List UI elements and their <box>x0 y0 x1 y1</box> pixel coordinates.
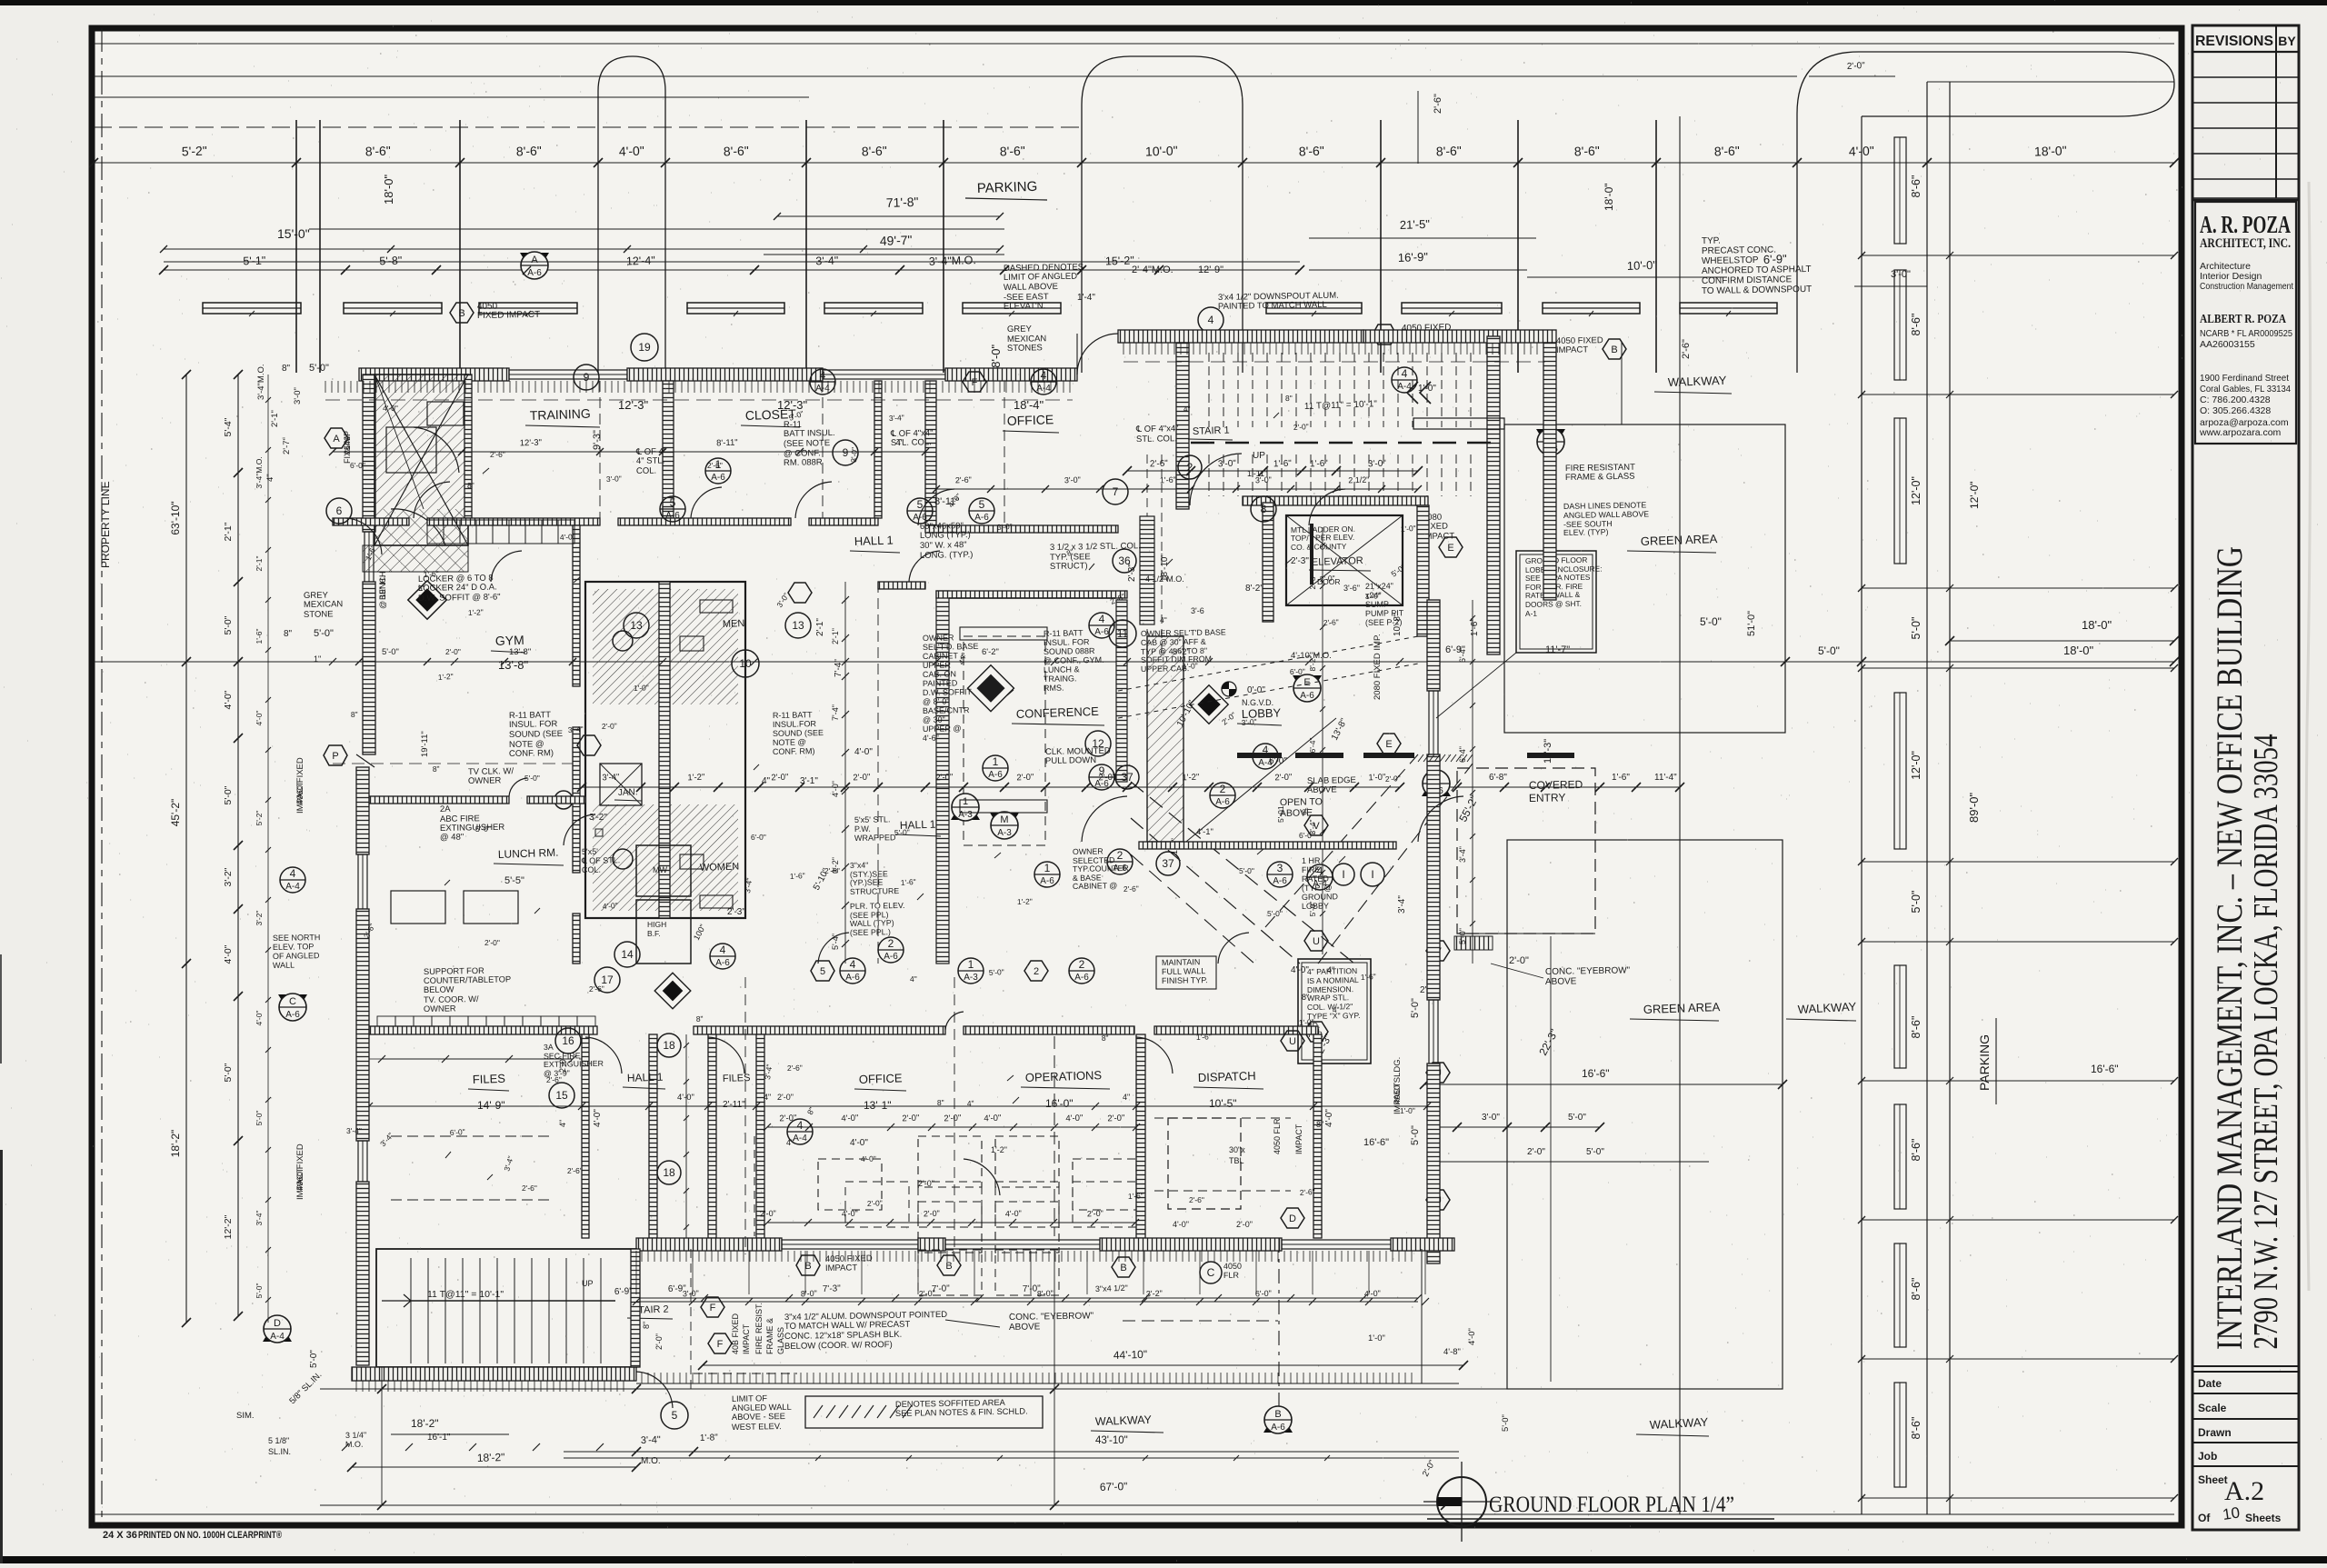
svg-text:4'-0": 4'-0" <box>677 1093 694 1103</box>
svg-text:18'-0": 18'-0" <box>2082 618 2112 632</box>
svg-text:Of: Of <box>2198 1512 2211 1524</box>
svg-text:13'-1": 13'-1" <box>864 1099 892 1112</box>
svg-text:4": 4" <box>1327 965 1334 974</box>
svg-text:5 1/8": 5 1/8" <box>268 1436 289 1445</box>
svg-text:SL.IN.: SL.IN. <box>268 1447 291 1456</box>
svg-text:HIGH: HIGH <box>647 920 666 929</box>
svg-text:P: P <box>332 751 338 762</box>
svg-text:4'-0": 4'-0" <box>383 404 398 413</box>
svg-text:INSUL. FOR: INSUL. FOR <box>509 719 558 730</box>
svg-text:1": 1" <box>314 654 321 664</box>
svg-text:C: C <box>289 996 296 1007</box>
svg-text:4": 4" <box>895 438 904 448</box>
svg-text:5: 5 <box>820 966 825 977</box>
svg-text:IMPACT: IMPACT <box>295 782 305 814</box>
svg-text:TV. COOR. W/: TV. COOR. W/ <box>424 994 479 1004</box>
svg-text:SUMP: SUMP <box>1365 600 1389 609</box>
svg-text:8": 8" <box>937 1098 944 1107</box>
svg-text:A-6: A-6 <box>285 1010 300 1020</box>
svg-text:1'-0": 1'-0" <box>1368 773 1385 784</box>
svg-text:2'-0": 2'-0" <box>935 773 953 784</box>
svg-text:8'-0": 8'-0" <box>801 1289 817 1299</box>
svg-text:FIX&IMP: FIX&IMP <box>343 431 352 464</box>
svg-text:12'-0": 12'-0" <box>1910 751 1923 780</box>
svg-text:4: 4 <box>290 867 296 880</box>
svg-text:MEXICAN: MEXICAN <box>304 599 344 610</box>
svg-text:1'-6": 1'-6" <box>1612 773 1630 783</box>
svg-text:A-6: A-6 <box>913 513 927 523</box>
svg-text:FLR: FLR <box>1223 1271 1240 1280</box>
svg-text:4: 4 <box>1099 613 1105 625</box>
svg-text:TYP.: TYP. <box>1702 236 1721 246</box>
svg-text:3A: 3A <box>544 1043 554 1052</box>
svg-text:2: 2 <box>1187 461 1193 474</box>
svg-text:43'-10": 43'-10" <box>1095 1435 1128 1446</box>
svg-text:8'-6": 8'-6" <box>1574 144 1600 159</box>
svg-text:HALL 1: HALL 1 <box>627 1071 664 1084</box>
svg-text:18'-0": 18'-0" <box>2034 143 2067 158</box>
svg-text:ABOVE: ABOVE <box>1009 1322 1041 1333</box>
svg-text:5'-2": 5'-2" <box>182 144 207 159</box>
svg-text:2'-0": 2'-0" <box>918 1179 934 1188</box>
svg-text:INTERLAND MANAGEMENT, INC. – N: INTERLAND MANAGEMENT, INC. – NEW OFFICE … <box>2209 546 2250 1350</box>
svg-text:ABOVE: ABOVE <box>1307 784 1337 795</box>
svg-text:4'-0": 4'-0" <box>593 1109 603 1127</box>
svg-text:6'-0": 6'-0" <box>1255 1289 1272 1299</box>
svg-text:OWNER: OWNER <box>424 1004 456 1014</box>
svg-text:2'-1": 2'-1" <box>831 628 840 644</box>
svg-text:E: E <box>1303 677 1310 688</box>
svg-text:4'-0": 4'-0" <box>1291 965 1309 975</box>
svg-text:FIXED IMPACT: FIXED IMPACT <box>477 310 540 321</box>
svg-text:2'-6": 2'-6" <box>824 866 840 875</box>
svg-text:2'-0": 2'-0" <box>1293 422 1309 432</box>
svg-text:3'-0": 3'-0" <box>849 447 859 464</box>
svg-text:C: C <box>1207 1266 1215 1279</box>
svg-text:2'-6": 2'-6" <box>1300 1187 1316 1197</box>
svg-text:A-6: A-6 <box>665 511 680 521</box>
svg-text:A-6: A-6 <box>1273 876 1287 886</box>
svg-text:OPEN TO: OPEN TO <box>1280 796 1323 808</box>
svg-text:4: 4 <box>850 958 856 971</box>
svg-text:6'-8": 6'-8" <box>1489 773 1507 783</box>
svg-text:11: 11 <box>1117 627 1129 640</box>
svg-text:16'-1": 16'-1" <box>427 1433 451 1443</box>
svg-text:37: 37 <box>1121 771 1134 784</box>
svg-text:B: B <box>1274 1409 1281 1420</box>
svg-text:OWNER: OWNER <box>468 775 502 786</box>
svg-text:2'-7": 2'-7" <box>282 437 292 454</box>
svg-text:8'-6": 8'-6" <box>1299 144 1324 159</box>
svg-text:PARKING: PARKING <box>977 179 1038 196</box>
svg-text:2'-1": 2'-1" <box>223 522 234 541</box>
svg-text:CONF. RM): CONF. RM) <box>509 748 554 759</box>
svg-text:2 1/2": 2 1/2" <box>1348 475 1370 485</box>
svg-text:ALBERT R. POZA: ALBERT R. POZA <box>2200 312 2286 325</box>
svg-text:STAIR 1: STAIR 1 <box>1193 425 1230 437</box>
svg-text:2'-6": 2'-6" <box>490 450 505 459</box>
svg-text:16'-0": 16'-0" <box>1045 1097 1074 1110</box>
svg-text:CAB. ON: CAB. ON <box>923 669 956 679</box>
svg-text:4": 4" <box>967 1099 974 1108</box>
svg-text:12'-4": 12'-4" <box>626 254 655 267</box>
svg-text:6'-0": 6'-0" <box>751 833 766 842</box>
svg-text:3'-4"M.O.: 3'-4"M.O. <box>929 254 976 268</box>
svg-text:8'-2": 8'-2" <box>1245 584 1263 594</box>
svg-text:U: U <box>1289 1036 1296 1047</box>
svg-text:4'-0": 4'-0" <box>831 781 840 797</box>
svg-text:1'-2": 1'-2" <box>1017 897 1033 906</box>
svg-text:1'-0": 1'-0" <box>1365 591 1381 601</box>
svg-text:1'-2": 1'-2" <box>991 1145 1007 1154</box>
svg-text:2: 2 <box>1079 958 1085 971</box>
svg-text:4'-0": 4'-0" <box>842 1209 858 1219</box>
svg-text:5'-0": 5'-0" <box>1910 891 1923 914</box>
svg-text:5'-0": 5'-0" <box>1458 928 1467 944</box>
svg-text:A-6: A-6 <box>527 268 542 278</box>
svg-text:2'-6": 2'-6" <box>546 1075 562 1084</box>
svg-text:71'-8": 71'-8" <box>886 195 919 210</box>
svg-text:1'-4": 1'-4" <box>1077 293 1095 303</box>
svg-text:16'-9": 16'-9" <box>1398 250 1429 265</box>
svg-text:4": 4" <box>764 1093 771 1102</box>
svg-text:2'-0": 2'-0" <box>1527 1147 1545 1157</box>
svg-text:10: 10 <box>2222 1504 2241 1523</box>
svg-text:18'-2": 18'-2" <box>477 1451 505 1464</box>
svg-text:2'-0": 2'-0" <box>1236 1220 1253 1229</box>
svg-text:CONF. RM): CONF. RM) <box>773 746 815 756</box>
svg-text:IMPACT: IMPACT <box>1294 1124 1303 1154</box>
svg-text:3 1/2 x 3 1/2 STL. COL.: 3 1/2 x 3 1/2 STL. COL. <box>1050 541 1141 553</box>
svg-text:2'-11": 2'-11" <box>723 1100 745 1110</box>
svg-text:LIMIT OF ANGLED: LIMIT OF ANGLED <box>1004 272 1077 283</box>
svg-text:4'-1": 4'-1" <box>1196 827 1213 837</box>
svg-text:Date: Date <box>2198 1377 2222 1390</box>
svg-text:16: 16 <box>562 1034 574 1047</box>
svg-text:OPERATIONS: OPERATIONS <box>1025 1068 1103 1084</box>
svg-text:5'-4": 5'-4" <box>223 417 234 436</box>
svg-text:1'-6": 1'-6" <box>1310 459 1329 470</box>
svg-text:7: 7 <box>1113 485 1119 498</box>
svg-text:A-6: A-6 <box>1271 1423 1285 1433</box>
svg-text:P.W.: P.W. <box>854 824 871 834</box>
svg-text:3'-0": 3'-0" <box>1368 459 1387 470</box>
svg-text:BY: BY <box>2278 34 2296 48</box>
svg-text:12'-2": 12'-2" <box>223 1214 234 1239</box>
svg-text:PARKING: PARKING <box>1977 1034 1992 1091</box>
svg-text:51'-0": 51'-0" <box>1746 611 1757 636</box>
svg-text:HALL 1: HALL 1 <box>854 534 894 548</box>
svg-text:8'-6": 8'-6" <box>1910 1139 1923 1162</box>
svg-text:2'-0": 2'-0" <box>654 1333 664 1350</box>
svg-text:2'-3": 2'-3" <box>1291 556 1309 566</box>
svg-text:3'-4": 3'-4" <box>1458 846 1467 863</box>
svg-text:2'-6": 2'-6" <box>589 984 604 994</box>
svg-text:LUNCH RM.: LUNCH RM. <box>498 846 559 861</box>
svg-text:8": 8" <box>284 629 293 639</box>
svg-text:8'-6": 8'-6" <box>724 144 749 159</box>
svg-text:0'-0": 0'-0" <box>1247 685 1265 695</box>
svg-text:4'-8": 4'-8" <box>1443 1347 1461 1357</box>
svg-text:A-6: A-6 <box>1300 691 1314 701</box>
svg-text:19: 19 <box>638 341 651 354</box>
svg-text:F: F <box>710 1303 716 1313</box>
svg-text:A-4: A-4 <box>1397 382 1412 392</box>
svg-text:37: 37 <box>1162 857 1174 870</box>
svg-text:A-6: A-6 <box>1040 876 1054 886</box>
svg-text:2'-0": 2'-0" <box>944 1114 961 1124</box>
svg-text:M: M <box>1000 814 1008 825</box>
svg-text:18'-0": 18'-0" <box>382 174 395 205</box>
svg-text:2A: 2A <box>440 804 451 814</box>
svg-text:5'-2": 5'-2" <box>255 811 264 826</box>
svg-text:5'-0": 5'-0" <box>475 824 491 834</box>
svg-text:4": 4" <box>558 1120 567 1127</box>
svg-text:5'-0": 5'-0" <box>314 628 334 639</box>
svg-text:3'-2": 3'-2" <box>223 867 234 886</box>
svg-text:4: 4 <box>1208 314 1214 326</box>
svg-text:2'-0": 2'-0" <box>924 1209 940 1219</box>
svg-text:12: 12 <box>1092 737 1104 750</box>
svg-text:FRAME &: FRAME & <box>765 1318 774 1354</box>
svg-text:PULL DOWN: PULL DOWN <box>1045 755 1096 766</box>
svg-text:GLASS: GLASS <box>776 1327 785 1354</box>
svg-text:8'-0": 8'-0" <box>1037 1289 1054 1299</box>
svg-text:2'-1": 2'-1" <box>815 618 825 636</box>
svg-text:1: 1 <box>963 796 968 807</box>
svg-text:2'-6": 2'-6" <box>1150 459 1169 470</box>
svg-text:A: A <box>531 255 538 265</box>
svg-text:WOMEN: WOMEN <box>700 861 740 874</box>
svg-text:8": 8" <box>1302 993 1309 1002</box>
svg-text:CONC. "EYEBROW": CONC. "EYEBROW" <box>1545 965 1631 977</box>
svg-text:E: E <box>1447 543 1453 554</box>
svg-text:1'-6": 1'-6" <box>1160 475 1176 485</box>
svg-text:Scale: Scale <box>2198 1402 2227 1414</box>
svg-text:8": 8" <box>418 584 425 593</box>
svg-text:ELEVATOR: ELEVATOR <box>1312 555 1363 568</box>
svg-text:3'-0": 3'-0" <box>996 522 1013 532</box>
svg-text:4'-0": 4'-0" <box>841 1114 858 1124</box>
svg-text:FRAME & GLASS: FRAME & GLASS <box>1565 472 1635 483</box>
svg-text:Job: Job <box>2198 1450 2217 1463</box>
svg-text:5'-0": 5'-0" <box>1410 1125 1421 1145</box>
svg-text:3'-0": 3'-0" <box>1891 269 1911 280</box>
svg-text:Drawn: Drawn <box>2198 1426 2232 1439</box>
svg-text:D.W. SOFFIT: D.W. SOFFIT <box>923 687 973 697</box>
svg-text:8'-6": 8'-6" <box>1000 144 1025 159</box>
svg-text:2'-0": 2'-0" <box>771 773 788 784</box>
svg-text:3'-4": 3'-4" <box>889 413 904 423</box>
svg-text:4'-0": 4'-0" <box>1364 1289 1381 1299</box>
svg-text:4: 4 <box>720 944 726 956</box>
svg-text:STRUCT): STRUCT) <box>1050 561 1088 572</box>
svg-text:UP: UP <box>1253 451 1265 461</box>
svg-text:TRAINING: TRAINING <box>530 406 591 423</box>
svg-text:@ 8'-0": @ 8'-0" <box>923 696 950 706</box>
svg-text:I: I <box>1342 868 1344 881</box>
svg-text:6'-4": 6'-4" <box>1458 646 1467 663</box>
svg-text:2: 2 <box>1034 966 1039 977</box>
svg-text:1'-0": 1'-0" <box>1299 1017 1314 1027</box>
svg-text:49'-7": 49'-7" <box>880 233 913 248</box>
svg-text:IMPACT: IMPACT <box>742 1323 751 1354</box>
svg-text:2'-6": 2'-6" <box>1124 884 1139 894</box>
svg-text:4": 4" <box>1183 404 1191 414</box>
svg-text:A-6: A-6 <box>988 770 1003 780</box>
svg-text:5'-0": 5'-0" <box>1267 909 1283 918</box>
svg-text:2'-0": 2'-0" <box>602 721 617 731</box>
svg-text:2'-0": 2'-0" <box>853 773 870 784</box>
svg-text:A-3: A-3 <box>997 828 1012 838</box>
svg-text:5'-0": 5'-0" <box>255 1111 264 1126</box>
svg-text:2'-0": 2'-0" <box>867 1198 883 1208</box>
svg-text:A-3: A-3 <box>964 973 978 983</box>
svg-text:A-4: A-4 <box>270 1332 285 1342</box>
svg-text:B: B <box>804 1261 811 1272</box>
svg-text:3'-0": 3'-0" <box>683 1289 699 1299</box>
svg-text:8": 8" <box>351 710 358 719</box>
svg-text:12'-9": 12'-9" <box>1198 265 1223 275</box>
svg-text:RATED: RATED <box>1302 874 1330 884</box>
svg-text:4'-0": 4'-0" <box>603 901 619 911</box>
svg-text:2'-0": 2'-0" <box>1385 774 1401 784</box>
svg-text:A: A <box>333 434 340 444</box>
svg-text:@ 30": @ 30" <box>923 715 945 724</box>
svg-text:4'-0": 4'-0" <box>1173 1220 1189 1229</box>
svg-text:AA26003155: AA26003155 <box>2200 339 2255 350</box>
svg-text:1'-6": 1'-6" <box>255 629 264 644</box>
svg-text:FILES: FILES <box>723 1073 751 1084</box>
svg-text:Construction Management: Construction Management <box>2200 281 2293 292</box>
svg-text:8": 8" <box>467 481 474 490</box>
svg-text:GROUND FLOOR PLAN 1/4”: GROUND FLOOR PLAN 1/4” <box>1489 1493 1734 1517</box>
svg-text:8": 8" <box>642 1322 651 1329</box>
svg-text:TO WALL & DOWNSPOUT: TO WALL & DOWNSPOUT <box>1702 285 1812 296</box>
svg-text:5'-1": 5'-1" <box>243 255 265 268</box>
svg-text:4'-0": 4'-0" <box>850 1138 868 1148</box>
svg-text:BASE/CNTR: BASE/CNTR <box>923 705 970 715</box>
svg-text:19'-11": 19'-11" <box>420 731 430 757</box>
svg-text:EXTINGUISHER: EXTINGUISHER <box>544 1059 604 1069</box>
svg-text:2'-6": 2'-6" <box>1433 94 1443 114</box>
svg-text:4050: 4050 <box>1223 1262 1242 1271</box>
svg-text:1'-6": 1'-6" <box>1128 1191 1144 1201</box>
svg-text:B.F.: B.F. <box>647 929 661 938</box>
svg-text:1: 1 <box>968 958 974 971</box>
svg-text:ABOVE - SEE: ABOVE - SEE <box>732 1412 785 1422</box>
svg-text:1'-0": 1'-0" <box>1368 1333 1385 1343</box>
svg-text:2'-0": 2'-0" <box>779 1114 796 1124</box>
svg-text:3'-4": 3'-4" <box>346 1126 362 1135</box>
svg-text:A-6: A-6 <box>1074 973 1089 983</box>
svg-text:5'-8": 5'-8" <box>379 255 402 268</box>
svg-text:SEL'T'D. BASE: SEL'T'D. BASE <box>923 642 979 652</box>
svg-text:3'-4": 3'-4" <box>602 773 619 784</box>
svg-text:3'-2": 3'-2" <box>255 911 264 926</box>
svg-text:1'-0": 1'-0" <box>1400 1106 1415 1115</box>
svg-text:PAINTED: PAINTED <box>923 678 958 688</box>
svg-text:11'-4": 11'-4" <box>1654 773 1677 783</box>
svg-text:4'-0": 4'-0" <box>984 1114 1001 1124</box>
svg-text:2'-0": 2'-0" <box>1016 773 1034 784</box>
svg-text:12'-0": 12'-0" <box>1910 476 1923 505</box>
svg-text:67'-0": 67'-0" <box>1100 1480 1128 1493</box>
svg-text:5'-0": 5'-0" <box>1818 644 1840 657</box>
svg-text:3'-0": 3'-0" <box>1064 475 1081 485</box>
svg-text:8": 8" <box>282 364 291 374</box>
svg-text:IMPACT: IMPACT <box>825 1263 858 1273</box>
svg-text:8'-11": 8'-11" <box>716 438 738 449</box>
svg-text:FIRE: FIRE <box>1302 865 1321 874</box>
svg-text:3'-0": 3'-0" <box>293 387 303 404</box>
svg-text:RM. 088R: RM. 088R <box>784 457 823 468</box>
svg-text:Sheets: Sheets <box>2245 1512 2282 1524</box>
svg-text:2'-0": 2'-0" <box>1107 1114 1124 1124</box>
svg-text:3"x4 1/2": 3"x4 1/2" <box>1095 1283 1128 1293</box>
svg-text:1'-6": 1'-6" <box>1361 972 1376 982</box>
svg-text:10'-0": 10'-0" <box>1627 258 1658 273</box>
svg-text:Sheet: Sheet <box>2198 1473 2228 1486</box>
svg-text:5'-0": 5'-0" <box>223 785 234 804</box>
svg-text:11'-7": 11'-7" <box>1545 644 1570 655</box>
svg-text:1'-6": 1'-6" <box>901 877 917 887</box>
svg-text:LIMIT OF: LIMIT OF <box>732 1393 768 1403</box>
svg-text:14: 14 <box>621 948 634 961</box>
svg-text:2'-0": 2'-0" <box>1847 61 1866 72</box>
svg-text:GROUND: GROUND <box>1302 892 1339 902</box>
svg-text:4050 FLR: 4050 FLR <box>1273 1118 1282 1154</box>
svg-text:U: U <box>1313 936 1320 947</box>
svg-text:3'-6": 3'-6" <box>1343 584 1360 593</box>
svg-text:MEN: MEN <box>723 618 745 630</box>
svg-text:RMS.: RMS. <box>1044 684 1064 693</box>
svg-text:3'-0": 3'-0" <box>1255 475 1272 485</box>
svg-text:4'-0": 4'-0" <box>223 690 234 709</box>
svg-text:10: 10 <box>739 657 752 670</box>
svg-text:1'-2": 1'-2" <box>687 773 704 784</box>
svg-text:8": 8" <box>433 764 440 774</box>
svg-text:OWNER: OWNER <box>923 633 954 643</box>
svg-text:℄ OF STL.: ℄ OF STL. <box>581 855 620 865</box>
svg-text:4": 4" <box>265 474 275 482</box>
svg-text:8": 8" <box>1285 394 1293 403</box>
svg-text:8'-6": 8'-6" <box>1910 1417 1923 1440</box>
svg-text:11'-3": 11'-3" <box>1543 739 1553 764</box>
svg-text:B: B <box>1120 1263 1126 1273</box>
svg-text:2'-0": 2'-0" <box>777 1093 794 1102</box>
svg-text:SOUND (SEE: SOUND (SEE <box>773 728 824 738</box>
svg-text:44'-10": 44'-10" <box>1114 1348 1148 1362</box>
svg-text:1'-2": 1'-2" <box>468 607 484 617</box>
svg-text:FIRE RESIST.: FIRE RESIST. <box>754 1303 764 1354</box>
svg-text:5'-0": 5'-0" <box>894 827 910 837</box>
svg-text:A-6: A-6 <box>1094 627 1109 637</box>
svg-text:4: 4 <box>797 1119 804 1132</box>
svg-text:6'-0": 6'-0" <box>1290 667 1305 676</box>
svg-text:UP: UP <box>582 1279 594 1288</box>
svg-text:TBL: TBL <box>1229 1156 1244 1165</box>
svg-text:5'-0": 5'-0" <box>255 1283 264 1299</box>
svg-text:B: B <box>458 308 464 319</box>
svg-text:8: 8 <box>1261 503 1267 515</box>
svg-text:5'-0": 5'-0" <box>1501 1414 1511 1432</box>
svg-text:4'-0": 4'-0" <box>1467 1328 1477 1345</box>
svg-text:5'-0": 5'-0" <box>1239 866 1254 875</box>
svg-text:5'-0": 5'-0" <box>989 967 1004 977</box>
svg-text:4" STL.: 4" STL. <box>636 455 665 466</box>
svg-text:4'-0": 4'-0" <box>619 144 644 159</box>
